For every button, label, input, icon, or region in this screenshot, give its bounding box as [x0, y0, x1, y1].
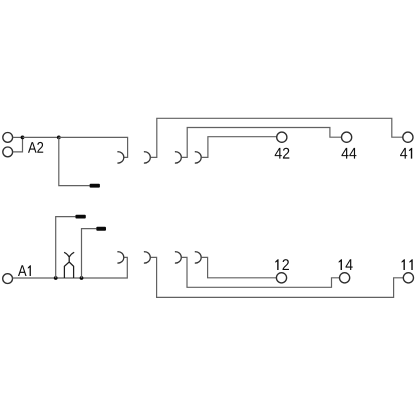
label 41	[400, 148, 412, 159]
terminal circle 12	[276, 273, 286, 283]
wire A1 bus	[13, 257, 128, 278]
wire arc2b down to line to 11	[151, 257, 404, 297]
plug-in socket contact arc 2 (top row)	[144, 152, 150, 163]
plug-in socket contact arc 4 (top row)	[195, 152, 201, 163]
terminal circle 42	[277, 132, 287, 142]
plug-in socket contact arc 3 (top row)	[175, 152, 181, 163]
node junction dot coil branch 2	[80, 276, 84, 280]
coil K1 (solid block)	[90, 184, 100, 188]
plug-in socket contact arc 1 (bottom row)	[117, 252, 123, 263]
wire A2 bus to coil branch	[23, 136, 59, 138]
wire riser to coil K2	[56, 217, 76, 278]
coil K3 (solid block)	[96, 227, 106, 231]
wire arc4 up to line to 42	[201, 137, 276, 158]
terminal circle 11	[403, 273, 413, 283]
wire arc2 up to line to 41	[151, 118, 403, 157]
terminal circle 41	[403, 132, 413, 142]
terminal circle A2 lower	[3, 147, 13, 157]
plug-in socket contact arc 3 (bottom row)	[175, 252, 181, 263]
label 12	[275, 259, 289, 270]
plug-in socket contact arc 1 (top row)	[117, 152, 123, 163]
label A1	[18, 265, 31, 276]
wire arc3 up to line to 44	[182, 128, 342, 158]
wire A2 lower stub up to junction	[13, 137, 23, 152]
plug-in socket contact arc 4 (bottom row)	[195, 252, 201, 263]
wire coil branch down to coil K1	[59, 137, 90, 185]
terminal circle 14	[340, 273, 350, 283]
coil K2 (solid block)	[75, 215, 85, 219]
node junction dot coil branch	[57, 136, 61, 140]
wire A2 upper stub to junction	[13, 136, 23, 138]
label 14	[339, 259, 353, 270]
plug-in socket contact arc 2 (bottom row)	[144, 252, 150, 263]
terminal circle A1	[3, 274, 13, 284]
node junction dot at A2 bus	[21, 136, 25, 140]
terminal circle 44	[342, 132, 352, 142]
label 44	[341, 148, 356, 159]
label 11	[402, 259, 413, 270]
wire arc3b down to line to 14	[182, 257, 340, 287]
label A2	[28, 142, 43, 153]
label 42	[275, 148, 290, 159]
terminal circle A2 upper	[3, 133, 13, 143]
mechanical actuator crossing symbol	[64, 252, 74, 278]
wire A2 bus to plug contact 1	[59, 137, 128, 157]
wire arc4b down to line to 12	[201, 257, 276, 277]
wire riser to coil K3	[82, 229, 97, 278]
node junction dot coil branch 1	[54, 276, 58, 280]
